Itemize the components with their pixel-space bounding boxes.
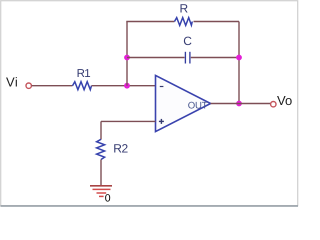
wire noninverting input horizontal bbox=[101, 120, 156, 122]
resistor R1 bbox=[73, 82, 92, 90]
svg-text:Vo: Vo bbox=[277, 93, 292, 108]
op-amp U1 bbox=[156, 75, 211, 131]
svg-text:0: 0 bbox=[105, 193, 111, 205]
capacitor C bbox=[185, 52, 190, 64]
wire noninverting drop to R2 bbox=[100, 121, 102, 139]
output terminal (Vo) bbox=[271, 102, 276, 107]
junction node at C row left bbox=[124, 55, 130, 61]
svg-text:C: C bbox=[183, 34, 192, 48]
frame border bbox=[1, 1, 299, 206]
resistor R2 bbox=[97, 139, 105, 159]
junction node at output bbox=[236, 101, 242, 107]
junction node at C row right bbox=[236, 55, 242, 61]
wire top feedback right segment bbox=[194, 21, 240, 23]
wire C row right segment bbox=[191, 57, 239, 59]
wire R1 to inverting node bbox=[92, 85, 156, 87]
svg-text:R: R bbox=[180, 2, 189, 16]
input terminal (Vi) bbox=[26, 83, 31, 88]
wire C row left segment bbox=[127, 57, 185, 59]
svg-text:R1: R1 bbox=[77, 68, 91, 80]
resistor R bbox=[175, 18, 193, 26]
wire R2 to ground bbox=[100, 160, 102, 186]
op-amp plus pin mark bbox=[159, 119, 164, 124]
wire Vi terminal to R1 bbox=[32, 85, 73, 87]
op-amp minus pin mark bbox=[160, 86, 164, 88]
svg-text:Vi: Vi bbox=[6, 75, 18, 90]
wire left vertical feedback riser bbox=[126, 22, 128, 86]
svg-text:OUT: OUT bbox=[188, 100, 208, 111]
junction node at inverting input bbox=[124, 83, 130, 89]
wire top feedback left segment bbox=[126, 21, 174, 23]
wire op-amp output to Vo bbox=[211, 103, 271, 105]
wire right vertical feedback drop bbox=[238, 22, 240, 104]
ground (0) symbol bbox=[90, 186, 112, 197]
svg-text:R2: R2 bbox=[113, 141, 128, 155]
